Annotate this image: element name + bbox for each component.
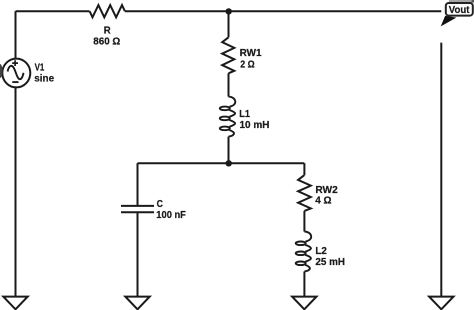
svg-text:860 Ω: 860 Ω: [93, 37, 120, 48]
wire left column upper: [15, 11, 17, 58]
svg-text:L1: L1: [239, 109, 250, 120]
wire top horizontal left segment: [16, 10, 90, 12]
svg-text:4 Ω: 4 Ω: [315, 195, 331, 206]
ground under L2: [292, 297, 316, 310]
wire between RW2 and L2: [303, 211, 305, 232]
wire middle column top: [228, 11, 230, 37]
svg-text:L2: L2: [315, 246, 327, 257]
voltage source V1 circle: [2, 59, 30, 88]
Vout flag clipped gray box: [449, 0, 474, 3]
wire left column lower: [15, 87, 17, 296]
svg-text:RW1: RW1: [240, 48, 262, 59]
inductor L2: [304, 232, 311, 242]
resistor RW1: [222, 37, 234, 73]
inductor L1: [229, 97, 236, 107]
Vout flag tail: [441, 16, 457, 27]
resistor R: [90, 5, 125, 17]
svg-text:25 mH: 25 mH: [315, 257, 345, 268]
wire far-right column: [440, 43, 442, 297]
wire top horizontal right segment: [125, 10, 441, 12]
wire middle column between RW1 and L1: [228, 73, 230, 96]
svg-text:2 Ω: 2 Ω: [240, 59, 254, 70]
svg-text:RW2: RW2: [315, 185, 338, 196]
svg-text:C: C: [157, 199, 164, 210]
ground under V1: [3, 297, 27, 310]
svg-text:sine: sine: [34, 74, 54, 85]
edge blob left of V1: [0, 64, 3, 78]
ground under C: [125, 297, 149, 310]
V1 plus sign: [12, 60, 18, 66]
wire RW2 branch top: [303, 163, 305, 175]
node junction dot bottom: [226, 160, 232, 166]
node junction dot top: [226, 8, 232, 14]
wire capacitor branch upper: [137, 163, 139, 205]
Vout flag box: [446, 3, 473, 16]
wire capacitor branch lower: [137, 213, 139, 297]
wire bottom horizontal: [138, 162, 305, 164]
svg-text:Vout: Vout: [449, 5, 470, 16]
ground far right: [429, 297, 453, 310]
V1 minus sign: [12, 81, 18, 83]
wire middle column bottom: [228, 137, 230, 164]
capacitor C plates: [121, 206, 154, 212]
Vout upper clipped box right border nub: [472, 0, 474, 3]
V1 sine waveform: [8, 66, 24, 79]
wire below L2: [303, 272, 305, 297]
svg-text:R: R: [104, 26, 111, 37]
svg-text:100 nF: 100 nF: [156, 210, 186, 221]
svg-text:V1: V1: [35, 63, 45, 74]
resistor RW2: [298, 175, 311, 211]
svg-text:10 mH: 10 mH: [240, 120, 270, 131]
